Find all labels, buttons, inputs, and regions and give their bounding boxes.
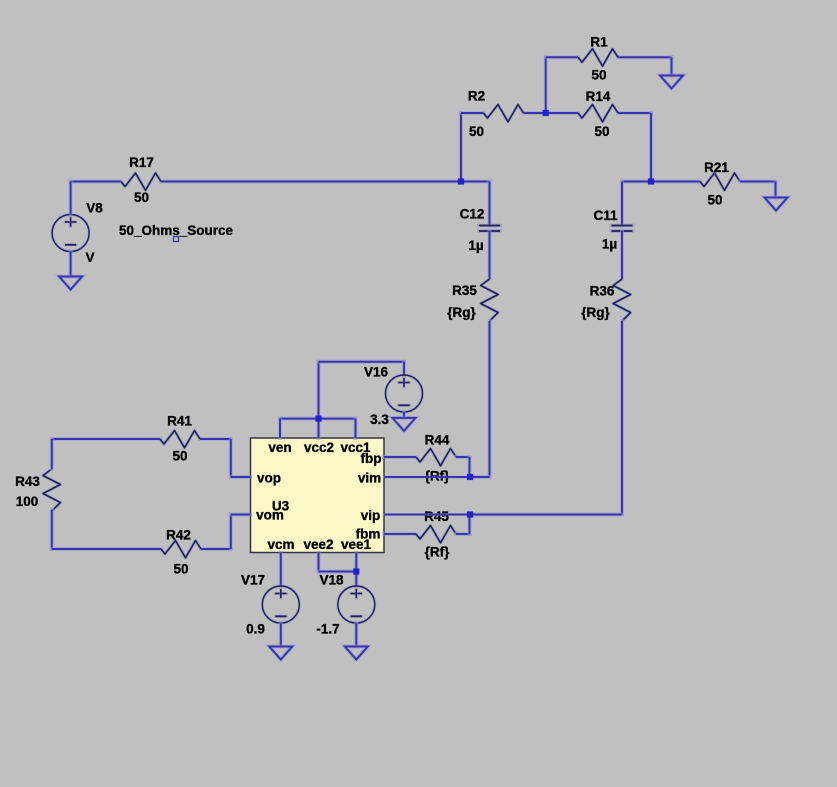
svg-text:V16: V16	[364, 365, 389, 380]
svg-text:100: 100	[16, 494, 39, 509]
label V17 value 0.9	[246, 622, 265, 637]
voltage source V18	[338, 586, 375, 623]
svg-text:vee2: vee2	[303, 537, 333, 552]
wire C12 to R35	[488, 231, 492, 279]
wire R44 to vim node	[456, 457, 470, 477]
pin label vom	[256, 508, 284, 523]
svg-text:3.3: 3.3	[370, 412, 389, 427]
label R44 name	[425, 433, 450, 448]
label V18 value -1.7	[316, 622, 339, 637]
wire R2 leads	[461, 111, 546, 115]
resistor R2	[484, 105, 524, 122]
svg-text:50: 50	[134, 190, 149, 205]
wire node B to R1 row	[544, 57, 548, 113]
svg-text:R1: R1	[590, 35, 608, 50]
wire node A to C12	[461, 182, 490, 226]
ground below V16	[393, 418, 416, 431]
wire R43 leads	[50, 439, 54, 549]
label R45 name	[424, 509, 449, 524]
svg-text:-1.7: -1.7	[316, 622, 339, 637]
wire R41 row	[52, 439, 251, 477]
wire vcc rail	[280, 419, 356, 438]
voltage source V17	[262, 586, 299, 623]
wire R14 down to node C	[649, 113, 653, 182]
ground below V18	[345, 647, 368, 660]
resistor R36	[613, 279, 630, 321]
wire vee1 to V18	[354, 553, 358, 586]
label R43 value 100	[16, 494, 39, 509]
svg-text:vee1: vee1	[341, 537, 372, 552]
resistor R43	[43, 469, 60, 511]
label R2 value 50	[469, 124, 484, 139]
resistor R17	[121, 173, 161, 190]
ground below V8	[59, 277, 82, 290]
label R41 value 50	[172, 449, 187, 464]
svg-text:{Rf}: {Rf}	[425, 545, 450, 560]
svg-text:vom: vom	[256, 508, 284, 523]
svg-text:R43: R43	[15, 474, 40, 489]
label V16 value 3.3	[370, 412, 389, 427]
wire rail to V16	[319, 362, 405, 419]
resistor R21	[700, 173, 740, 190]
wire V16 to ground	[402, 412, 406, 418]
pin label vcc1	[340, 440, 371, 455]
label R14 value 50	[594, 124, 609, 139]
label R1 name	[590, 35, 608, 50]
wire C11 to R36	[620, 231, 624, 279]
label R35 name	[452, 283, 477, 298]
pin label vim	[358, 471, 381, 486]
svg-text:R21: R21	[704, 160, 729, 175]
pin label vcm	[267, 537, 294, 552]
svg-text:R17: R17	[129, 155, 154, 170]
wire vip row	[384, 513, 470, 516]
label R1 value 50	[591, 68, 606, 83]
label V18 name	[319, 573, 344, 588]
wire vcm to V17	[279, 553, 283, 586]
svg-text:R44: R44	[425, 433, 450, 448]
resistor R41	[160, 431, 200, 448]
label V8 name	[86, 201, 103, 216]
node C junction	[648, 178, 654, 184]
label C12 name	[460, 207, 485, 222]
svg-text:1µ: 1µ	[602, 237, 617, 252]
ground right of R21	[765, 198, 788, 211]
svg-text:vip: vip	[361, 508, 381, 523]
svg-text:50: 50	[594, 124, 609, 139]
svg-text:C11: C11	[593, 208, 618, 223]
svg-text:ven: ven	[268, 440, 291, 455]
svg-text:vim: vim	[358, 471, 381, 486]
node vim junction	[467, 474, 473, 480]
label R2 name	[468, 89, 485, 104]
wire R21 right lead	[740, 182, 776, 198]
wire fbm lead	[384, 532, 416, 536]
node A junction	[458, 178, 464, 184]
resistor R1	[578, 49, 618, 66]
pin label vip	[361, 508, 381, 523]
pin label fbp	[361, 451, 382, 466]
svg-text:50_Ohms_Source: 50_Ohms_Source	[119, 223, 234, 238]
label R45 value Rf	[425, 545, 450, 560]
label R21 value 50	[707, 193, 722, 208]
svg-text:50: 50	[469, 124, 484, 139]
pin label vop	[257, 471, 281, 486]
resistor R35	[481, 279, 498, 321]
voltage source V8	[52, 182, 89, 277]
label R14 name	[586, 89, 611, 104]
label R35 value Rg	[447, 305, 476, 320]
svg-text:R2: R2	[468, 89, 485, 104]
label C12 value 1u	[468, 238, 483, 253]
label R17 name	[129, 155, 154, 170]
svg-text:V17: V17	[241, 573, 265, 588]
node B junction	[543, 110, 549, 116]
svg-text:50: 50	[707, 193, 722, 208]
label R36 value Rg	[581, 305, 610, 320]
label V16 name	[364, 365, 389, 380]
label V8 value V	[85, 250, 94, 265]
node vee junction	[353, 568, 359, 574]
label R42 value 50	[173, 562, 188, 577]
pin label vee2	[303, 537, 333, 552]
svg-text:V18: V18	[319, 573, 344, 588]
net label 50_Ohms_Source	[119, 223, 234, 242]
wire R35 to vim node	[470, 321, 490, 477]
svg-text:fbp: fbp	[361, 451, 382, 466]
svg-text:V: V	[85, 250, 94, 265]
pin label ven	[268, 440, 291, 455]
svg-text:R41: R41	[167, 414, 192, 429]
label R44 value Rf	[425, 469, 450, 484]
label V17 name	[241, 573, 265, 588]
svg-text:{Rg}: {Rg}	[447, 305, 476, 320]
label R21 name	[704, 160, 729, 175]
wire R42 row	[52, 515, 251, 550]
wire fbp lead	[384, 455, 416, 459]
node vip junction	[467, 511, 473, 517]
svg-text:R45: R45	[424, 509, 449, 524]
label R43 name	[15, 474, 40, 489]
svg-text:vcm: vcm	[267, 537, 294, 552]
svg-text:R35: R35	[452, 283, 477, 298]
label R41 name	[167, 414, 192, 429]
wire node A vertical	[459, 113, 463, 182]
voltage source V16	[386, 375, 423, 412]
svg-text:R14: R14	[586, 89, 611, 104]
svg-text:50: 50	[173, 562, 188, 577]
wire vim row	[384, 476, 470, 479]
wire R36 to vip node	[470, 321, 622, 515]
wire node C row	[622, 180, 700, 184]
svg-text:50: 50	[591, 68, 606, 83]
node vcc junction	[315, 416, 321, 422]
resistor R44	[416, 449, 456, 466]
label U3 name	[272, 499, 290, 514]
wire C11 top lead	[620, 182, 624, 226]
resistor R42	[161, 541, 201, 558]
wire R45 to vip node	[456, 515, 470, 535]
wire R17 row (V8 to node A)	[71, 180, 461, 184]
svg-text:R42: R42	[166, 528, 191, 543]
ground below V17	[269, 647, 292, 660]
svg-text:vcc2: vcc2	[304, 440, 334, 455]
pin label vee1	[341, 537, 372, 552]
label R42 name	[166, 528, 191, 543]
ground right of R1	[660, 76, 683, 89]
svg-text:C12: C12	[460, 207, 485, 222]
label C11 name	[593, 208, 618, 223]
wire V17 to ground	[279, 624, 283, 647]
svg-text:R36: R36	[590, 284, 615, 299]
wire vee2 to vee1 node	[319, 553, 357, 572]
svg-text:V8: V8	[86, 201, 103, 216]
svg-text:0.9: 0.9	[246, 622, 265, 637]
label R36 name	[590, 284, 615, 299]
resistor R45	[416, 526, 456, 543]
capacitor C12	[479, 226, 500, 232]
capacitor C11	[612, 226, 633, 232]
pin label vcc2	[304, 440, 334, 455]
pin label fbm	[356, 527, 381, 542]
resistor R14	[578, 105, 618, 122]
wire V18 to ground	[354, 624, 358, 647]
svg-text:50: 50	[172, 449, 187, 464]
svg-text:vop: vop	[257, 471, 281, 486]
svg-text:1µ: 1µ	[468, 238, 483, 253]
svg-text:{Rg}: {Rg}	[581, 305, 610, 320]
op-amp U3 body	[251, 438, 385, 553]
label C11 value 1u	[602, 237, 617, 252]
wire R14 leads	[546, 111, 651, 115]
label R17 value 50	[134, 190, 149, 205]
wire R1 leads	[546, 57, 672, 75]
